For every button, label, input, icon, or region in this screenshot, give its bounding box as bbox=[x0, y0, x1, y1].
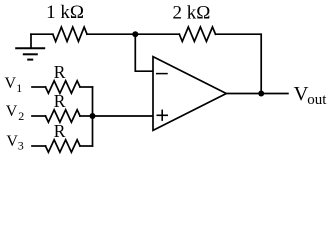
ground bbox=[16, 34, 44, 59]
svg-text:1 kΩ: 1 kΩ bbox=[46, 2, 84, 23]
svg-text:R: R bbox=[54, 91, 66, 111]
svg-text:3: 3 bbox=[18, 139, 24, 153]
svg-text:out: out bbox=[307, 92, 327, 108]
op-amp U1 bbox=[153, 57, 226, 131]
svg-text:2: 2 bbox=[18, 109, 24, 123]
svg-text:R: R bbox=[54, 62, 66, 82]
input V2 wire stub bbox=[32, 115, 46, 117]
minus sign on inverting input bbox=[157, 73, 167, 75]
svg-text:V: V bbox=[6, 133, 18, 150]
svg-text:R: R bbox=[54, 121, 66, 141]
wire noninverting input from bus junction bbox=[93, 115, 154, 117]
wire node A down to inverting input bbox=[135, 34, 153, 71]
node A junction dot bbox=[132, 31, 138, 37]
plus sign on noninverting input bbox=[157, 110, 167, 120]
bus junction dot bbox=[90, 113, 96, 119]
svg-text:V: V bbox=[5, 75, 17, 92]
summing bus vertical wire bbox=[92, 87, 94, 146]
svg-text:1: 1 bbox=[16, 81, 22, 95]
wire R2 to output node (feedback) bbox=[216, 34, 262, 93]
wire R(V1) to bus bbox=[80, 86, 93, 88]
wire ground to R1 bbox=[31, 33, 53, 35]
output node junction dot bbox=[258, 91, 264, 97]
wire R(V2) to bus junction bbox=[80, 115, 93, 117]
svg-text:V: V bbox=[6, 103, 18, 120]
resistor R (V2) bbox=[46, 110, 81, 122]
wire R(V3) to bus bbox=[80, 145, 93, 147]
resistor R1 1 kOhm bbox=[53, 27, 87, 41]
resistor R (V1) bbox=[46, 81, 81, 93]
input V1 wire stub bbox=[32, 86, 46, 88]
wire R1 to node A bbox=[87, 33, 135, 35]
input V3 wire stub bbox=[32, 145, 46, 147]
resistor R2 2 kOhm bbox=[179, 27, 215, 41]
resistor R (V3) bbox=[46, 140, 81, 152]
wire node A to R2 bbox=[135, 33, 179, 35]
output wire to Vout bbox=[226, 93, 288, 95]
svg-text:2 kΩ: 2 kΩ bbox=[173, 2, 211, 23]
